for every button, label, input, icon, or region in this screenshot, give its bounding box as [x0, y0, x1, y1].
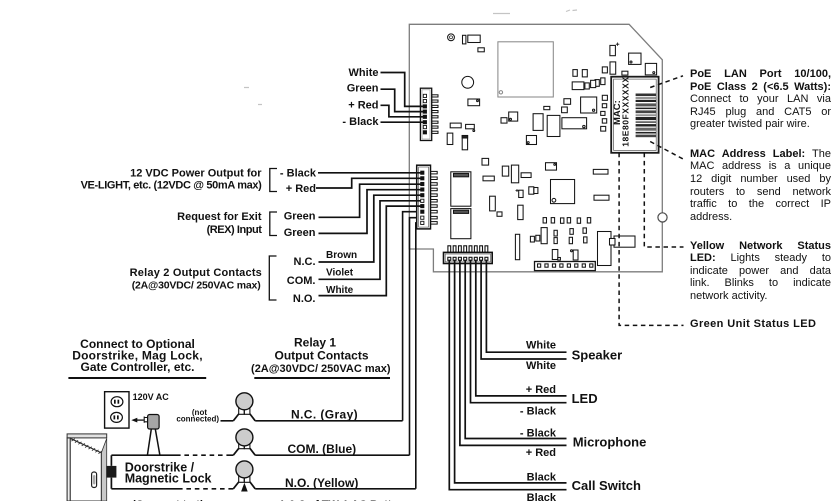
svg-text:White: White [526, 360, 556, 372]
svg-text:(2A@30VDC/ 250VAC max): (2A@30VDC/ 250VAC max) [251, 363, 391, 375]
svg-text:Green: Green [284, 210, 316, 222]
svg-text:18E80FXXXXXX: 18E80FXXXXXX [621, 76, 631, 146]
svg-text:- Black: - Black [520, 427, 557, 439]
svg-text:(REX) Input: (REX) Input [207, 224, 263, 236]
svg-text:VE-LIGHT, etc. (12VDC @ 50mA m: VE-LIGHT, etc. (12VDC @ 50mA max) [81, 179, 263, 191]
svg-text:12 VDC Power Output for: 12 VDC Power Output for [130, 168, 262, 180]
svg-text:Microphone: Microphone [573, 434, 647, 449]
svg-text:LED: LED [572, 391, 598, 406]
svg-text:Magnetic Lock: Magnetic Lock [125, 472, 212, 486]
svg-text:Green: Green [284, 227, 316, 239]
svg-text:N.C. (Gray): N.C. (Gray) [291, 407, 358, 421]
svg-text:Request for Exit: Request for Exit [177, 211, 262, 223]
svg-text:Black: Black [527, 492, 557, 501]
svg-text:Brown: Brown [326, 250, 357, 261]
svg-text:Relay 2 Output Contacts: Relay 2 Output Contacts [130, 267, 262, 279]
svg-text:Call Switch: Call Switch [572, 478, 641, 493]
svg-text:- Black: - Black [280, 168, 317, 180]
svg-text:White: White [349, 67, 379, 79]
svg-text:(2A@30VDC/ 250VAC max): (2A@30VDC/ 250VAC max) [132, 279, 261, 291]
svg-text:COM.: COM. [287, 275, 316, 287]
svg-text:N.O.: N.O. [293, 293, 316, 305]
svg-text:+ Red: + Red [348, 100, 378, 112]
svg-text:COM. (Blue): COM. (Blue) [288, 442, 357, 456]
svg-text:+ Red: + Red [526, 384, 556, 396]
svg-text:Output Contacts: Output Contacts [275, 349, 369, 363]
svg-text:- Black: - Black [342, 116, 379, 128]
svg-text:White: White [326, 285, 354, 296]
svg-text:N.C.: N.C. [294, 256, 316, 268]
svg-text:Relay 1: Relay 1 [294, 335, 336, 349]
svg-text:White: White [526, 340, 556, 352]
svg-text:Violet: Violet [326, 267, 354, 278]
svg-text:+ Red: + Red [286, 183, 316, 195]
svg-text:- Black: - Black [520, 405, 557, 417]
svg-text:connected): connected) [176, 415, 219, 424]
svg-text:Speaker: Speaker [572, 348, 623, 363]
svg-text:Gate Controller, etc.: Gate Controller, etc. [80, 360, 194, 374]
svg-text:120V AC: 120V AC [133, 392, 170, 402]
svg-text:N.O. (Yellow): N.O. (Yellow) [285, 476, 358, 490]
svg-text:Black: Black [527, 472, 557, 484]
svg-text:Green: Green [347, 83, 379, 95]
svg-text:+ Red: + Red [526, 447, 556, 459]
